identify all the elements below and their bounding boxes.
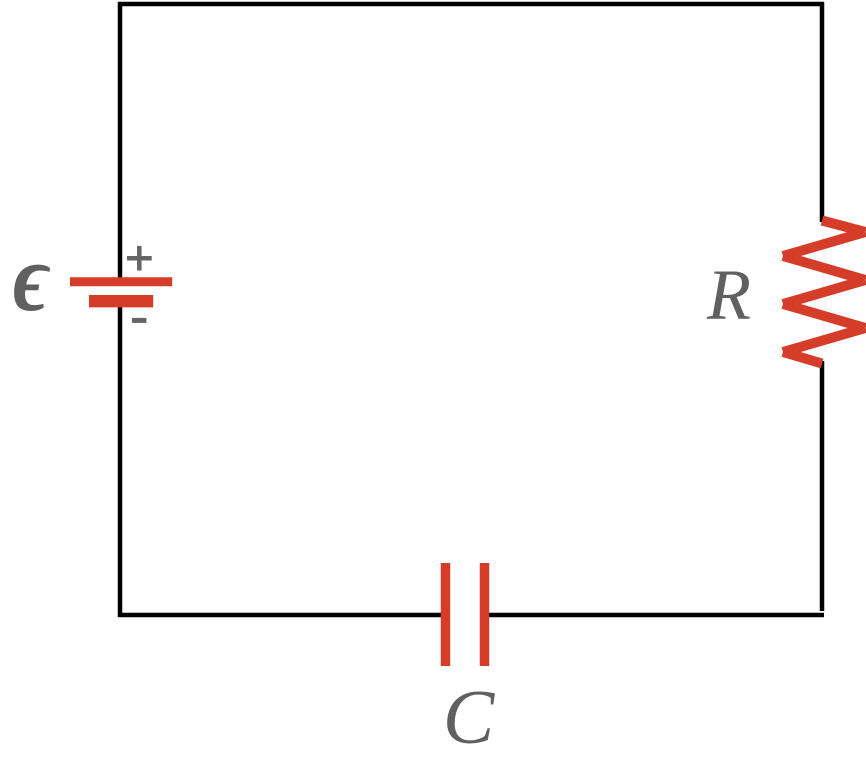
resistor R zigzag xyxy=(783,221,866,364)
wire top xyxy=(118,2,824,7)
svg-text:C: C xyxy=(443,674,496,760)
wire left upper (top corner to battery) xyxy=(118,2,123,278)
wire left lower (battery to bottom corner) xyxy=(118,306,123,617)
battery V1 negative plate (short) xyxy=(89,295,153,307)
wire bottom left (corner to capacitor) xyxy=(118,613,446,618)
battery minus sign xyxy=(132,318,147,323)
wire bottom right (capacitor to corner) xyxy=(484,613,824,618)
svg-text:ϵ: ϵ xyxy=(13,225,51,331)
battery plus sign xyxy=(127,246,152,271)
capacitor C right plate xyxy=(480,563,490,666)
capacitor C left plate xyxy=(441,563,451,666)
battery V1 positive plate (long) xyxy=(70,277,172,286)
wire right upper (top corner to resistor) xyxy=(820,2,825,222)
svg-text:R: R xyxy=(706,255,751,335)
wire right lower (resistor to bottom corner) xyxy=(820,361,825,611)
